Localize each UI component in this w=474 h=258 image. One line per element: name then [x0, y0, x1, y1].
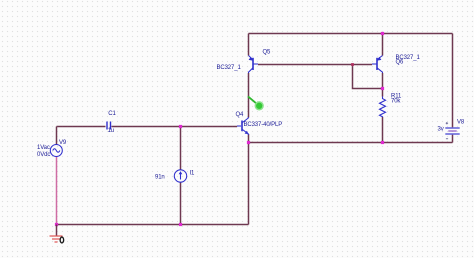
svg-text:1u: 1u	[108, 128, 114, 134]
svg-text:Q5: Q5	[263, 50, 272, 56]
svg-text:I1: I1	[190, 171, 196, 177]
svg-text:3v: 3v	[438, 127, 444, 133]
svg-text:C1: C1	[108, 111, 116, 117]
svg-text:Q6: Q6	[396, 59, 405, 65]
svg-text:1Vac: 1Vac	[37, 145, 50, 151]
svg-text:BC327_1: BC327_1	[217, 65, 242, 71]
svg-text:91n: 91n	[155, 175, 165, 181]
svg-text:V8: V8	[457, 120, 465, 126]
svg-text:V9: V9	[59, 140, 67, 146]
svg-text:70k: 70k	[391, 98, 401, 104]
svg-text:Q4: Q4	[236, 112, 245, 118]
svg-text:BC337-40/PLP: BC337-40/PLP	[244, 122, 283, 128]
svg-text:0Vdc: 0Vdc	[37, 152, 50, 158]
